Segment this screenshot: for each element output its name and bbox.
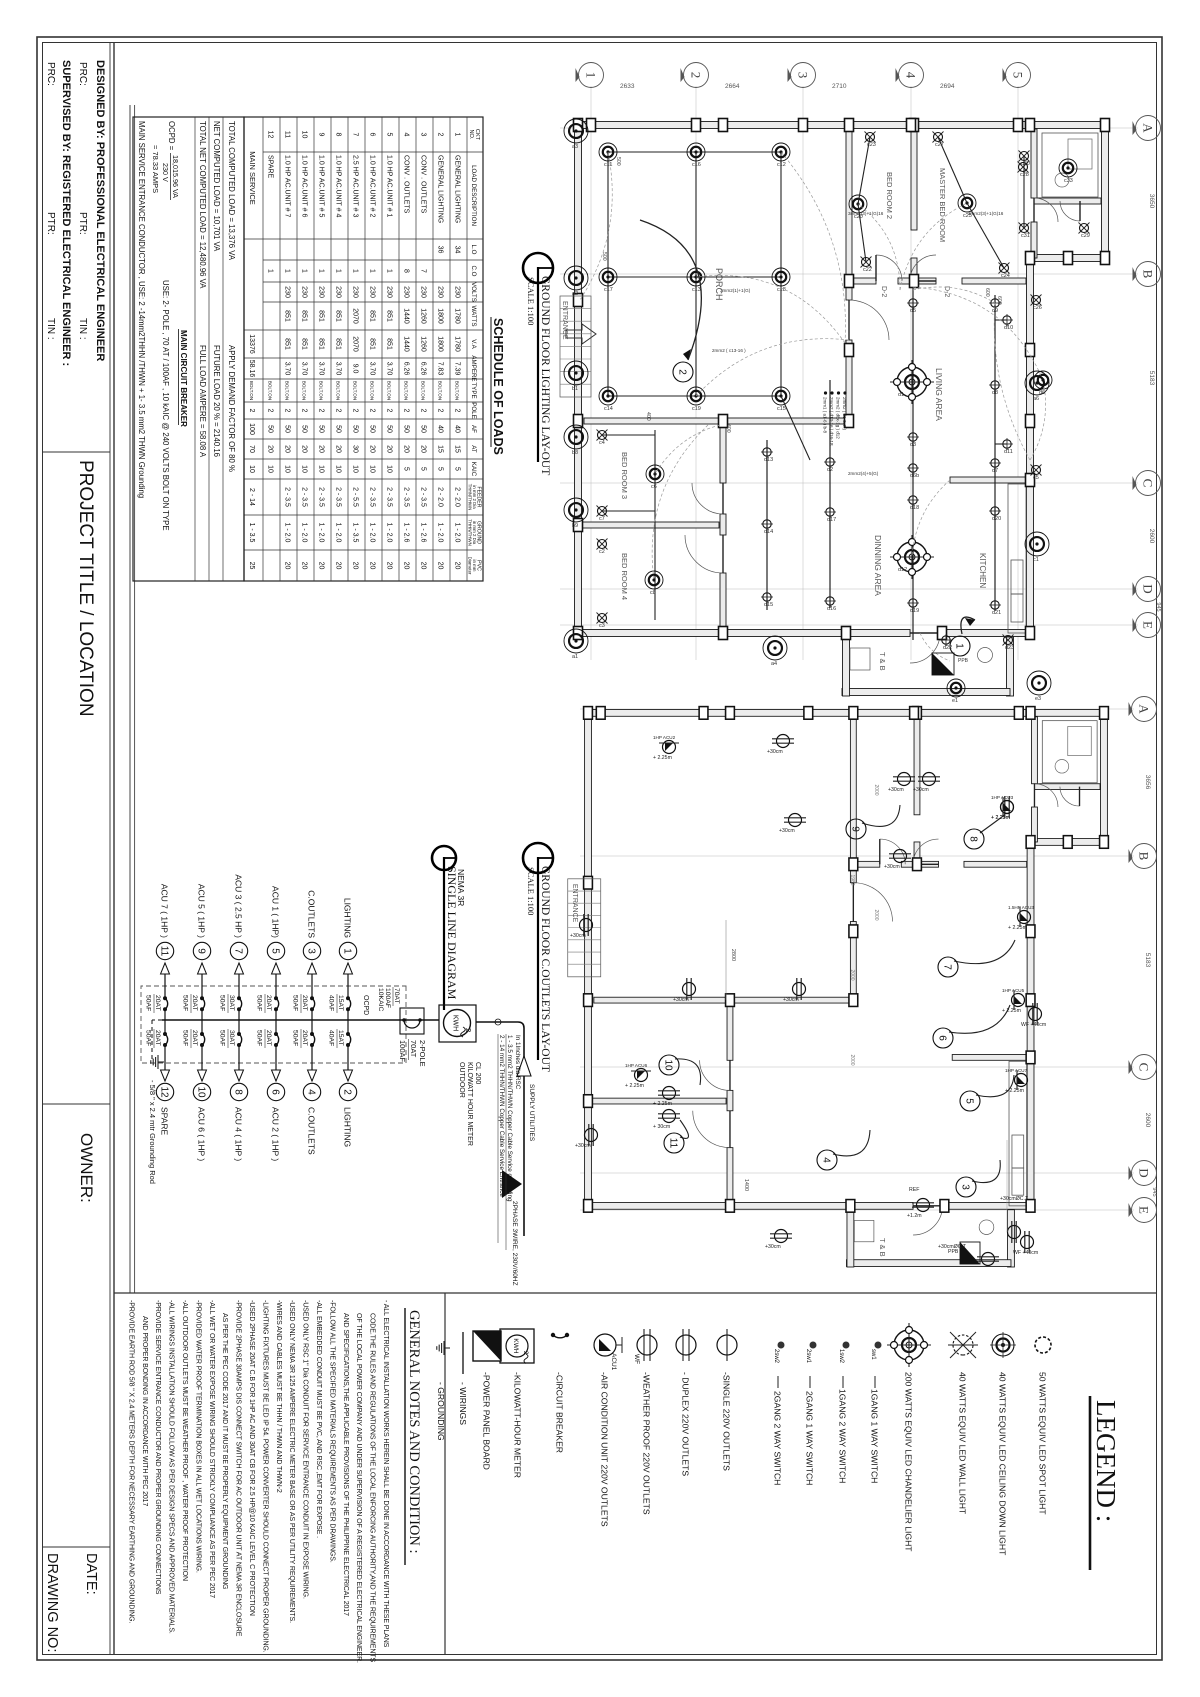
svg-text:10: 10: [369, 465, 376, 473]
svg-text:500: 500: [615, 157, 621, 166]
kitchen counter: [1008, 484, 1026, 633]
svg-text:2694: 2694: [940, 83, 955, 90]
circuit 9 tag: [193, 942, 210, 959]
svg-text:9: 9: [318, 133, 325, 137]
svg-text:2: 2: [369, 409, 376, 413]
svg-text:7.83: 7.83: [437, 362, 444, 376]
ceiling light c11: [599, 143, 617, 161]
svg-text:230: 230: [301, 286, 308, 298]
svg-text:50AF: 50AF: [256, 995, 263, 1011]
T&B light d22: [940, 634, 952, 646]
svg-text:2: 2: [437, 133, 444, 137]
svg-text:c12: c12: [777, 162, 786, 168]
svg-text:40: 40: [437, 425, 444, 433]
svg-text:+ 2.25m: + 2.25m: [653, 755, 672, 761]
svg-text:In 1Inches dia RSC: In 1Inches dia RSC: [514, 1035, 521, 1090]
svg-text:ENTRANCE: ENTRANCE: [571, 884, 578, 923]
svg-text:945: 945: [1155, 602, 1161, 611]
svg-text:20AT: 20AT: [154, 995, 161, 1011]
svg-text:CL 200: CL 200: [474, 1062, 481, 1084]
ceiling light c13: [687, 268, 705, 286]
BR3/BR4 divider wall: [592, 1098, 726, 1104]
svg-text:1: 1: [341, 948, 352, 954]
svg-text:+30cm: +30cm: [673, 997, 689, 1003]
svg-text:1 - 2.0: 1 - 2.0: [454, 523, 461, 543]
svg-text:TIN :: TIN :: [77, 318, 88, 340]
svg-text:1 - 2.0: 1 - 2.0: [335, 523, 342, 543]
PPB symbol lighting plan: [932, 653, 954, 675]
svg-text:1440: 1440: [403, 308, 410, 324]
ACU outlet 1HP ACU5: [1012, 990, 1025, 1010]
svg-text:10: 10: [267, 465, 274, 473]
pin light d5: [907, 297, 919, 309]
svg-text:b9: b9: [572, 523, 578, 529]
pin light d14: [761, 518, 773, 530]
svg-text:1HP ACU3: 1HP ACU3: [991, 795, 1014, 800]
svg-text:E: E: [1141, 621, 1156, 629]
svg-text:1 - 2.0: 1 - 2.0: [318, 523, 325, 543]
svg-text:50: 50: [335, 425, 342, 433]
svg-text:3.70: 3.70: [369, 362, 376, 376]
svg-text:7: 7: [420, 269, 427, 273]
svg-text:THHN/THWN: THHN/THWN: [467, 484, 472, 511]
svg-text:AND SPECIFICATIONS,THE APPLICA: AND SPECIFICATIONS,THE APPLICABLE PROVIS…: [342, 1313, 349, 1616]
svg-text:10: 10: [352, 465, 359, 473]
svg-text:BOLT.ON: BOLT.ON: [268, 381, 273, 400]
svg-text:40AF: 40AF: [328, 1030, 335, 1046]
svg-text:D: D: [1137, 1168, 1152, 1177]
house outer wall: step: [1026, 255, 1105, 262]
homerun circuit 7: [954, 940, 1015, 964]
drawing area bottom double line: [134, 105, 136, 1293]
svg-text:c17: c17: [604, 287, 613, 293]
duplex outlet +30cm at (1236,419): [770, 1230, 792, 1243]
svg-text:FULL LOAD AMPERE = 58.08 A: FULL LOAD AMPERE = 58.08 A: [198, 345, 207, 458]
svg-text:13376: 13376: [248, 334, 255, 354]
house outer wall: top A: [1101, 709, 1108, 846]
svg-text:2 - 14: 2 - 14: [248, 488, 255, 506]
homerun circuit 4: [833, 1130, 870, 1156]
svg-text:DATE:: DATE:: [83, 1553, 99, 1595]
svg-text:c22: c22: [863, 267, 872, 273]
BR3 BR4 lights: [654, 430, 656, 620]
svg-text:851: 851: [386, 338, 393, 350]
svg-text:MAIN CIRCUIT BREAKER: MAIN CIRCUIT BREAKER: [179, 330, 188, 427]
svg-text:KWH: KWH: [452, 1015, 459, 1031]
duplex outlet + 2.25m at (807,193): [1001, 796, 1014, 818]
svg-text:2 - 14 mm2 THHN/THWN Copper Ca: 2 - 14 mm2 THHN/THWN Copper Cable Servic…: [498, 1035, 505, 1197]
svg-text:50: 50: [386, 425, 393, 433]
svg-text:4: 4: [305, 1089, 316, 1095]
BR2/porch wall: [850, 717, 856, 883]
ceiling light c18: [772, 268, 790, 286]
svg-text:2 - 3.5: 2 - 3.5: [284, 487, 291, 507]
T&B right wall: [842, 689, 1010, 696]
svg-text:ACU1: ACU1: [610, 1353, 617, 1371]
svg-text:1HP ACU7: 1HP ACU7: [1005, 1068, 1028, 1073]
svg-text:1sw2: 1sw2: [838, 1349, 844, 1364]
svg-text:d3: d3: [910, 442, 916, 448]
svg-text:d5: d5: [910, 308, 916, 314]
grid bubbles A-E (outlets): [1132, 697, 1157, 722]
circuit 7 tag: [230, 942, 247, 959]
entrance steps (outlets): [568, 879, 601, 977]
svg-text:CODE.THE RULES AND REGULATIONS: CODE.THE RULES AND REGULATIONS OF THE LO…: [369, 1313, 376, 1662]
circuit homerun 2 porch: [640, 220, 701, 360]
svg-text:6.26: 6.26: [420, 362, 427, 376]
svg-text:2GANG 2 WAY SWITCH: 2GANG 2 WAY SWITCH: [773, 1391, 783, 1485]
svg-text:1 - 2.0: 1 - 2.0: [301, 523, 308, 543]
svg-text:APPLY DEMAND FACTOR OF 80 %: APPLY DEMAND FACTOR OF 80 %: [227, 345, 236, 472]
svg-text:5183: 5183: [1148, 371, 1155, 386]
svg-text:9: 9: [849, 826, 860, 832]
svg-text:KAIC: KAIC: [470, 462, 477, 477]
svg-text:OUTDOOR: OUTDOOR: [458, 1062, 465, 1098]
svg-text:15AT: 15AT: [337, 1030, 344, 1046]
supply drop filled arrow: [502, 1170, 522, 1198]
svg-text:5: 5: [437, 467, 444, 471]
svg-text:50: 50: [267, 425, 274, 433]
svg-text:20: 20: [352, 562, 359, 570]
duplex outlet +30cm at (989,511): [683, 978, 696, 1000]
ceiling light c16: [687, 143, 705, 161]
legend: -WEATHER PROOF 220V OUTLETS: [637, 1335, 657, 1355]
svg-text:BED ROOM 3: BED ROOM 3: [620, 452, 629, 499]
svg-text:20AT: 20AT: [265, 995, 272, 1011]
house outer wall: top B: [1027, 838, 1034, 1210]
svg-text:1.0 HP AC.UNIT # 2: 1.0 HP AC.UNIT # 2: [369, 155, 376, 217]
svg-text:600: 600: [984, 288, 990, 297]
grid bubbles 1-5 (lighting): [579, 63, 604, 88]
svg-text:4: 4: [904, 72, 919, 79]
duplex outlet +30cm at (741,417): [772, 735, 794, 748]
svg-text:D: D: [1141, 584, 1156, 593]
wall light c7: [597, 506, 608, 517]
svg-text:C: C: [1137, 1063, 1152, 1072]
svg-text:2mm2(4)+5(G): 2mm2(4)+5(G): [848, 471, 879, 476]
svg-text:18,015.96 VA: 18,015.96 VA: [171, 155, 180, 198]
svg-text:10: 10: [318, 465, 325, 473]
svg-text:40 WATTS EQUIV LED WALL L: 40 WATTS EQUIV LED WALL LIGHT: [958, 1372, 968, 1515]
ceiling light c17: [599, 268, 617, 286]
svg-text:2 - 5.5: 2 - 5.5: [352, 487, 359, 507]
svg-text:50AF: 50AF: [182, 995, 189, 1011]
kwh meter: [439, 1005, 476, 1042]
svg-text:c33: c33: [1064, 178, 1073, 184]
svg-text:2GANG 1 WAY SWITCH: 2GANG 1 WAY SWITCH: [805, 1391, 815, 1485]
BR2/porch wall: [846, 129, 852, 300]
svg-text:2000: 2000: [873, 909, 879, 920]
grid bubbles A-E (lighting): [1136, 116, 1161, 141]
svg-text:10: 10: [662, 1059, 673, 1071]
svg-text:20: 20: [454, 562, 461, 570]
svg-text:1.0 HP AC.UNIT # 6: 1.0 HP AC.UNIT # 6: [301, 155, 308, 217]
outlets plan house: [584, 707, 1109, 1267]
svg-text:in mm 2 Dia: in mm 2 Dia: [472, 521, 477, 545]
svg-text:10: 10: [335, 465, 342, 473]
ceiling light a3 bottom wall: [763, 636, 787, 660]
svg-text:2710: 2710: [832, 83, 847, 90]
svg-text:851: 851: [318, 338, 325, 350]
svg-text:6: 6: [369, 133, 376, 137]
svg-text:-SINGLE 220V OUTLETS: -SINGLE 220V OUTLETS: [722, 1372, 732, 1471]
svg-text:d1: d1: [898, 392, 904, 398]
wall light c23: [865, 132, 876, 143]
svg-text:4: 4: [403, 133, 410, 137]
svg-text:CKT: CKT: [474, 129, 480, 141]
svg-text:1HP ACU5: 1HP ACU5: [1002, 988, 1025, 993]
svg-text:50: 50: [301, 425, 308, 433]
lighting plan title: [523, 253, 553, 283]
svg-text:2: 2: [386, 409, 393, 413]
OCPD main breaker: [400, 1008, 424, 1034]
svg-text:d11: d11: [1004, 449, 1013, 455]
svg-text:1: 1: [369, 269, 376, 273]
svg-text:c23: c23: [867, 142, 876, 148]
svg-text:20: 20: [335, 445, 342, 453]
svg-text:2: 2: [301, 409, 308, 413]
legend: -SINGLE 220V OUTLETS: [717, 1335, 737, 1355]
svg-text:50: 50: [403, 425, 410, 433]
BR3/BR4 divider wall: [582, 522, 719, 528]
svg-text:2: 2: [267, 409, 274, 413]
svg-text:+30cmØC.T: +30cmØC.T: [1000, 1196, 1029, 1202]
homerun circuit 6: [949, 1005, 1010, 1033]
svg-text:10: 10: [195, 1086, 206, 1098]
svg-text:400: 400: [725, 424, 731, 433]
svg-text:ACU 5 ( 1HP ): ACU 5 ( 1HP ): [197, 884, 207, 938]
wall posts: [1100, 707, 1109, 720]
svg-text:d15: d15: [764, 602, 773, 608]
svg-text:30AT: 30AT: [228, 995, 235, 1011]
svg-text:851: 851: [335, 310, 342, 322]
svg-text:-PROVIDE EARTH ROD 5/8 " X 2.4: -PROVIDE EARTH ROD 5/8 " X 2.4 METERS DE…: [127, 1300, 134, 1623]
branch circuit 11/12: [164, 963, 166, 998]
svg-text:ACU 1 ( 1HP): ACU 1 ( 1HP): [271, 886, 281, 938]
svg-text:BOLT.ON: BOLT.ON: [387, 381, 392, 400]
svg-text:12: 12: [158, 1086, 169, 1098]
svg-text:3.70: 3.70: [284, 362, 291, 376]
homerun circuit 9: [862, 805, 900, 826]
svg-text:3.70: 3.70: [386, 362, 393, 376]
hall/bedroom wall: [727, 997, 733, 1060]
svg-text:-ALL WIRINGS INSTALLATION SHOU: -ALL WIRINGS INSTALLATION SHOULD FOLLOW …: [168, 1300, 175, 1634]
svg-text:+ 2.25m: + 2.25m: [1008, 925, 1027, 931]
pin light d17: [824, 506, 836, 518]
outlets plan grid lines: [580, 708, 1134, 710]
svg-text:-USED ONLY RSC 1" Dia CONDUIT: -USED ONLY RSC 1" Dia CONDUIT FOR SERVIC…: [302, 1300, 309, 1599]
svg-text:70AT: 70AT: [409, 1040, 418, 1058]
svg-text:BOLT.ON: BOLT.ON: [370, 381, 375, 400]
svg-text:GROUND FLOOR LIGHTING LAY-OUT: GROUND FLOOR LIGHTING LAY-OUT: [539, 276, 551, 475]
svg-text:3650: 3650: [1148, 194, 1155, 209]
ACU outlet 1HP ACU3: [1001, 797, 1014, 817]
svg-text:+30cm: +30cm: [575, 1143, 591, 1149]
svg-text:B: B: [1141, 270, 1156, 279]
svg-text:WATTS: WATTS: [470, 306, 477, 327]
svg-text:A: A: [1137, 704, 1152, 714]
svg-text:3656: 3656: [1144, 775, 1151, 790]
svg-text:b1: b1: [572, 386, 578, 392]
svg-text:1: 1: [584, 72, 599, 79]
svg-text:1400: 1400: [743, 1179, 749, 1191]
ceiling light c15: [772, 387, 790, 405]
kitchen/dining wall: [950, 477, 1026, 483]
svg-text:PROJECT TITLE / LOCATION: PROJECT TITLE / LOCATION: [75, 460, 96, 717]
outdoor wall B lights: [1025, 371, 1049, 395]
svg-text:ACU 4 ( 1HP ): ACU 4 ( 1HP ): [234, 1107, 244, 1161]
svg-text:6.26: 6.26: [403, 362, 410, 376]
svg-text:5: 5: [403, 467, 410, 471]
door: bed room 4: [693, 1111, 730, 1148]
svg-text:c11: c11: [604, 162, 612, 168]
svg-text:20AT: 20AT: [191, 995, 198, 1011]
svg-text:851: 851: [386, 310, 393, 322]
svg-text:d13: d13: [764, 457, 773, 463]
svg-text:LIGHTING: LIGHTING: [343, 1107, 353, 1147]
svg-text:c24: c24: [1001, 273, 1010, 279]
supply arrow on wire: [517, 1056, 531, 1076]
svg-text:11: 11: [158, 946, 169, 957]
svg-text:-USED ONLY NEMA 3R 125 AMPERE: -USED ONLY NEMA 3R 125 AMPERE ELECTRIC M…: [288, 1300, 295, 1623]
svg-text:ACU 7 ( 1HP ): ACU 7 ( 1HP ): [160, 884, 170, 938]
svg-text:20AT: 20AT: [154, 1030, 161, 1046]
legend: 50 WATTS EQUIV LED SPOT LIGHT: [1035, 1337, 1051, 1353]
WP outlet rear: [1021, 1231, 1034, 1253]
circuit 12 tag: [156, 1083, 173, 1100]
svg-text:+30cm: +30cm: [913, 787, 929, 793]
ACU outlet 1HP ACU6: [631, 1069, 651, 1082]
svg-text:1 - 2.6: 1 - 2.6: [403, 523, 410, 543]
svg-text:3mm2(3)+1(G)16: 3mm2(3)+1(G)16: [968, 211, 1004, 216]
svg-text:3.70: 3.70: [318, 362, 325, 376]
svg-text:GENERAL NOTES AND CONDITION :: GENERAL NOTES AND CONDITION :: [406, 1310, 422, 1554]
svg-text:2 - 3.5: 2 - 3.5: [403, 487, 410, 507]
legend: 40 WATTS EQUIV LED CEILING DOWN LIGHT: [992, 1334, 1014, 1356]
lighting plan grid lines: [560, 127, 1138, 129]
pin light d3: [907, 431, 919, 443]
svg-text:10KAIC: 10KAIC: [377, 988, 384, 1012]
svg-text:OCPD: OCPD: [362, 995, 369, 1015]
svg-text:230: 230: [386, 286, 393, 298]
outlet pair on T&B wall: [1008, 1221, 1021, 1243]
svg-text:KILOWATT HOUR METER: KILOWATT HOUR METER: [466, 1062, 473, 1146]
svg-text:5: 5: [454, 467, 461, 471]
svg-text:-ALL WET OR WATER EXPOSE WIRIN: -ALL WET OR WATER EXPOSE WIRING SHOULD S…: [208, 1300, 215, 1598]
legend: -CIRCUIT BREAKER: [565, 1333, 569, 1337]
svg-text:V.A: V.A: [470, 339, 477, 349]
duplex outlet + 2.25m at (1093,531): [658, 1087, 680, 1100]
svg-text:1: 1: [284, 269, 291, 273]
T&B top wall: [1007, 637, 1014, 696]
pin light d16: [824, 595, 836, 607]
svg-text:+30cm: +30cm: [765, 1244, 781, 1250]
svg-text:20: 20: [318, 445, 325, 453]
svg-text:LIVING AREA: LIVING AREA: [934, 368, 944, 421]
svg-text:10: 10: [284, 465, 291, 473]
svg-text:BOLT.ON: BOLT.ON: [421, 381, 426, 400]
svg-text:BOLT.ON: BOLT.ON: [455, 381, 460, 400]
svg-text:+30cm: +30cm: [779, 828, 795, 834]
legend: -POWER PANEL BOARD: [473, 1331, 501, 1361]
svg-text:2: 2: [248, 409, 255, 413]
svg-text:C.OUTLETS: C.OUTLETS: [307, 1107, 317, 1155]
svg-text:851: 851: [369, 310, 376, 322]
svg-text:SUPERVISED BY: REGISTERED ELE: SUPERVISED BY: REGISTERED ELECTRICAL ENG…: [60, 60, 72, 366]
legend: -AIR CONDITION UNIT 220V OUTLETS: [594, 1334, 616, 1356]
svg-text:2: 2: [284, 409, 291, 413]
bath closet wall: [1034, 198, 1101, 204]
house outer wall: bottom: [585, 709, 592, 1210]
door: bed room 3: [692, 483, 723, 514]
svg-text:c29: c29: [1081, 233, 1090, 239]
duplex outlet +30cm at (1135,609): [585, 1124, 598, 1146]
svg-text:d9: d9: [992, 308, 998, 314]
svg-text:50: 50: [369, 425, 376, 433]
legend: 2GANG 2 WAY SWITCH: [778, 1342, 785, 1349]
bath fixtures: [1042, 133, 1098, 197]
legend: 1GANG 1 WAY SWITCH: [875, 1342, 882, 1349]
svg-text:1780: 1780: [454, 336, 461, 352]
svg-text:PRC:: PRC:: [77, 62, 88, 86]
svg-text:2: 2: [318, 409, 325, 413]
svg-text:20: 20: [301, 445, 308, 453]
branch circuit 9/10: [201, 963, 203, 998]
svg-text:d19: d19: [910, 608, 919, 614]
pin light d18: [907, 494, 919, 506]
branch circuit 3/4: [311, 963, 313, 998]
svg-text:b8: b8: [572, 450, 578, 456]
NEMA 3R enclosure dashed box: [141, 986, 406, 1063]
svg-text:c8: c8: [650, 590, 656, 596]
house outer wall: left: [584, 710, 1108, 717]
grounding of panel: [152, 1019, 162, 1021]
svg-text:100: 100: [248, 423, 255, 435]
svg-text:c2: c2: [599, 549, 605, 555]
svg-text:50: 50: [318, 425, 325, 433]
svg-text:851: 851: [284, 338, 291, 350]
svg-text:5: 5: [269, 948, 280, 954]
svg-text:58.16: 58.16: [248, 360, 255, 378]
svg-text:230: 230: [454, 286, 461, 298]
bedroom/living wall: [962, 278, 1026, 284]
svg-text:8: 8: [335, 133, 342, 137]
svg-text:c3: c3: [599, 623, 605, 629]
ACU outlet 1HP ACU7: [1015, 1070, 1028, 1090]
circuit 11 tag: [156, 942, 173, 959]
svg-text:in mm: in mm: [472, 560, 477, 572]
ceiling light c20 master: [849, 195, 867, 213]
svg-text:MASTER BED ROOM: MASTER BED ROOM: [938, 168, 947, 242]
T&B fixtures: [854, 1220, 874, 1241]
svg-text:20: 20: [369, 562, 376, 570]
svg-text:AT: AT: [470, 445, 477, 453]
duplex outlet +30cm at (925,614): [580, 914, 593, 936]
svg-text:c31: c31: [1021, 233, 1030, 239]
svg-text:2000: 2000: [849, 1054, 855, 1065]
svg-text:-POWER PANEL BOARD: -POWER PANEL BOARD: [482, 1372, 492, 1470]
svg-text:-CIRCUIT BREAKER: -CIRCUIT BREAKER: [555, 1372, 565, 1453]
svg-text:1.0 HP AC.UNIT # 7: 1.0 HP AC.UNIT # 7: [284, 155, 291, 217]
svg-text:1 - 2.0: 1 - 2.0: [369, 523, 376, 543]
svg-text:34: 34: [454, 246, 461, 254]
switch arcs lighting (dashed): [858, 204, 900, 290]
circuit 5 tag: [267, 942, 284, 959]
svg-text:SUPPLY UTILITIES: SUPPLY UTILITIES: [528, 1084, 535, 1142]
svg-text:1 - 3.5 mm2 THHN/THWN Copper: 1 - 3.5 mm2 THHN/THWN Copper Cable Servi…: [506, 1035, 513, 1202]
svg-text:+30cmØC.T: +30cmØC.T: [938, 1244, 967, 1250]
legend: -KILOWATT-HOUR METER: [500, 1329, 534, 1363]
